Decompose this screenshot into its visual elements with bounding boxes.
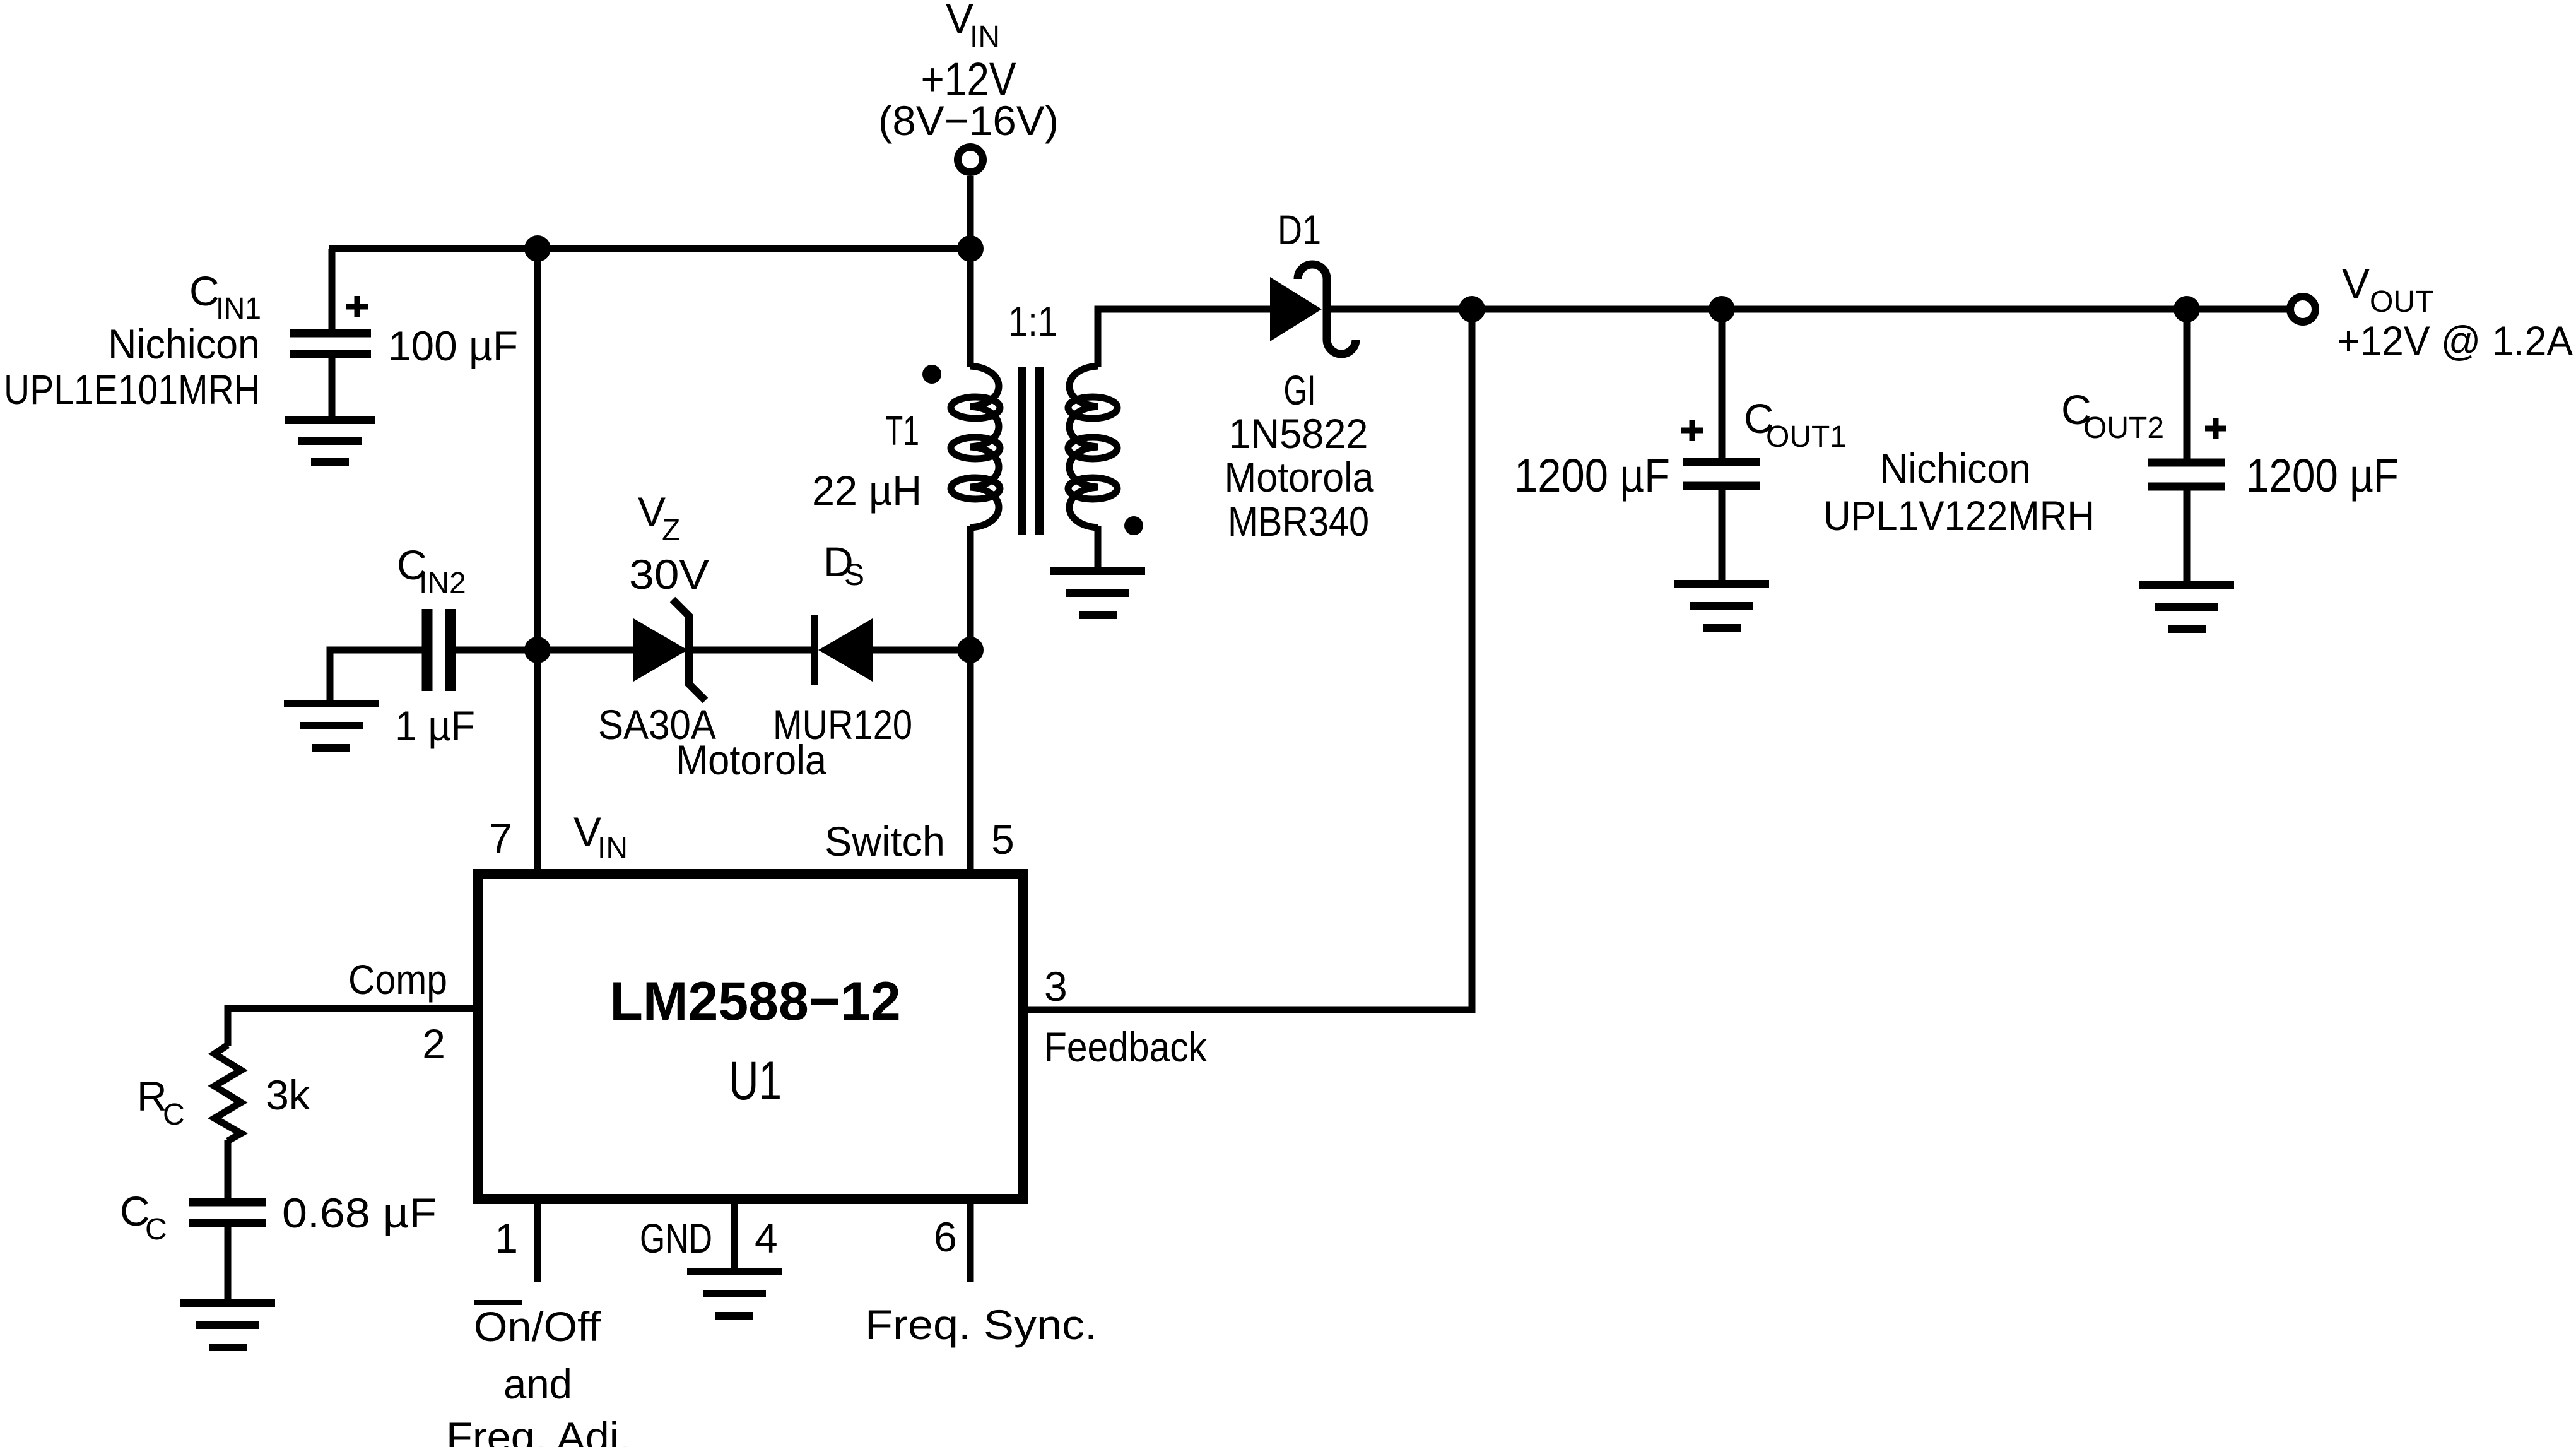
svg-text:C: C (163, 1098, 185, 1131)
wire top input rail (329, 245, 970, 252)
diode DS MUR120 (676, 538, 970, 783)
ground CC (180, 1303, 275, 1347)
capacitor CIN1 100uF (4, 249, 518, 420)
ground secondary (1050, 571, 1145, 615)
capacitor CIN2 1uF (330, 541, 538, 749)
svg-text:IN: IN (970, 20, 1000, 54)
ground CIN1 (285, 420, 375, 462)
diode D1 1N5822 schottky (1225, 206, 1374, 545)
capacitor CC 0.68uF (120, 1188, 437, 1303)
pin 1 stub On/Off (446, 1199, 631, 1447)
node COUT1 junction (1709, 296, 1735, 322)
wire switch column lower to pin 5 (967, 526, 974, 874)
svg-text:Nichicon: Nichicon (108, 321, 260, 367)
svg-text:2: 2 (422, 1020, 445, 1067)
wire VIN column to CIN2 node (534, 249, 541, 650)
node feedback junction (1459, 296, 1485, 322)
svg-text:IN2: IN2 (419, 567, 466, 600)
svg-text:6: 6 (934, 1214, 957, 1260)
svg-text:(8V−16V): (8V−16V) (878, 97, 1059, 144)
capacitor COUT2 1200uF (2061, 309, 2399, 585)
node switch junction (957, 637, 984, 663)
wire pin 7 column (534, 650, 541, 874)
capacitor COUT1 1200uF (1514, 309, 2095, 584)
svg-text:Feedback: Feedback (1044, 1024, 1208, 1070)
pin 4 stub GND (640, 1199, 778, 1272)
ground GND pin4 (687, 1272, 782, 1316)
ground COUT1 (1674, 584, 1769, 628)
svg-text:0.68 µF: 0.68 µF (282, 1190, 437, 1236)
svg-text:22 µH: 22 µH (812, 467, 922, 514)
terminal VOUT output (2290, 260, 2573, 364)
wire switch column upper (967, 249, 974, 367)
svg-text:IN: IN (597, 832, 628, 865)
svg-text:OUT1: OUT1 (1766, 420, 1847, 454)
transformer T1 1:1 22uH (812, 298, 1143, 535)
svg-text:T1: T1 (885, 407, 919, 454)
svg-text:C: C (145, 1213, 167, 1246)
svg-text:1N5822: 1N5822 (1229, 410, 1368, 457)
svg-text:GI: GI (1284, 367, 1316, 413)
svg-text:Freq. Adj.: Freq. Adj. (446, 1414, 631, 1447)
ground CIN2 (284, 704, 379, 748)
svg-text:Motorola: Motorola (1225, 454, 1374, 500)
svg-text:Nichicon: Nichicon (1879, 445, 2031, 492)
svg-text:Freq. Sync.: Freq. Sync. (865, 1301, 1097, 1348)
svg-text:D1: D1 (1278, 206, 1321, 253)
terminal VIN input (878, 0, 1059, 249)
node CIN1 branch junction (524, 235, 551, 262)
svg-text:4: 4 (755, 1215, 778, 1261)
svg-text:C: C (189, 268, 220, 314)
svg-text:Switch: Switch (825, 818, 945, 865)
wire output rail (1327, 306, 2288, 313)
svg-text:1 µF: 1 µF (395, 702, 475, 749)
wire secondary bottom to ground (1095, 526, 1102, 571)
svg-text:1:1: 1:1 (1008, 298, 1057, 345)
svg-text:5: 5 (991, 816, 1015, 863)
svg-text:1200 µF: 1200 µF (1514, 449, 1670, 502)
svg-text:Motorola: Motorola (676, 736, 826, 783)
svg-text:GND: GND (640, 1215, 712, 1261)
svg-text:+12V @ 1.2A: +12V @ 1.2A (2337, 317, 2573, 364)
svg-text:UPL1V122MRH: UPL1V122MRH (1823, 492, 2095, 539)
svg-text:S: S (844, 558, 864, 592)
svg-text:and: and (503, 1361, 572, 1407)
op-amp IC U1 LM2588-12 box (478, 874, 1023, 1199)
svg-text:OUT2: OUT2 (2083, 411, 2164, 445)
svg-text:1: 1 (495, 1215, 518, 1261)
pin 7 label (489, 808, 628, 865)
svg-text:U1: U1 (729, 1051, 782, 1111)
svg-text:Comp: Comp (348, 956, 447, 1003)
ground COUT2 (2139, 585, 2234, 629)
pin 2 comp wire (228, 956, 478, 1067)
node COUT2 junction (2173, 296, 2200, 322)
svg-text:V: V (2342, 260, 2370, 307)
svg-text:OUT: OUT (2370, 285, 2433, 319)
svg-text:7: 7 (489, 815, 512, 861)
svg-text:Z: Z (662, 514, 680, 547)
node CIN2 zener junction (524, 637, 551, 663)
pin 3 feedback wire (1023, 309, 1472, 1070)
svg-text:1200 µF: 1200 µF (2246, 449, 2399, 502)
svg-text:LM2588−12: LM2588−12 (609, 971, 900, 1032)
pin 5 label (825, 816, 1015, 865)
wire secondary top to D1 (1098, 309, 1270, 367)
svg-text:3: 3 (1044, 963, 1067, 1010)
svg-text:UPL1E101MRH: UPL1E101MRH (4, 366, 260, 413)
svg-text:30V: 30V (629, 551, 709, 598)
node VIN rail junction (957, 235, 984, 262)
svg-text:On/Off: On/Off (474, 1303, 601, 1350)
diode VZ zener SA30A 30V (538, 488, 716, 748)
svg-text:MBR340: MBR340 (1228, 498, 1369, 545)
svg-text:3k: 3k (266, 1072, 310, 1118)
svg-text:100 µF: 100 µF (388, 322, 518, 369)
pin 6 stub Freq Sync (865, 1199, 1097, 1348)
resistor RC 3k (137, 1045, 310, 1198)
